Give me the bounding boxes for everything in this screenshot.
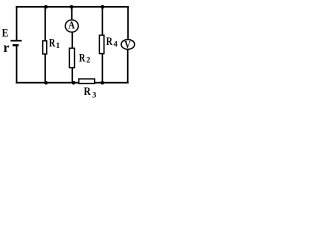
svg-text:R: R <box>84 84 91 98</box>
background <box>0 0 141 102</box>
svg-text:r: r <box>3 40 9 55</box>
node top R4 <box>101 5 105 9</box>
svg-text:R: R <box>49 38 56 50</box>
resistor R3 <box>79 79 95 84</box>
wire right below voltmeter <box>127 49 129 84</box>
svg-text:R: R <box>79 52 86 64</box>
label R3 <box>84 84 96 99</box>
svg-text:2: 2 <box>86 56 90 65</box>
label R1 <box>49 38 60 50</box>
svg-text:3: 3 <box>92 91 96 100</box>
svg-text:E: E <box>2 28 9 40</box>
battery E long plate <box>11 40 22 42</box>
wire branch R4 <box>101 7 103 83</box>
svg-text:V: V <box>124 40 131 51</box>
ammeter A <box>65 20 78 32</box>
resistor R2 <box>69 48 74 67</box>
svg-text:A: A <box>68 21 75 32</box>
resistor R4 <box>99 35 104 53</box>
resistor R1 <box>43 41 47 54</box>
voltmeter V <box>121 40 134 52</box>
node bottom R2 <box>72 81 76 85</box>
node top R1 <box>44 5 48 9</box>
wire left below battery <box>16 45 18 83</box>
wire branch A upper <box>71 7 73 21</box>
label R4 <box>106 36 118 48</box>
wire top <box>16 6 129 8</box>
node top A <box>70 5 74 9</box>
battery E short plate <box>13 44 19 46</box>
wire branch R1 <box>44 7 46 83</box>
wire left above battery <box>16 6 18 41</box>
wire bottom <box>16 82 129 84</box>
svg-text:4: 4 <box>114 39 118 48</box>
node bottom R1 <box>44 81 48 85</box>
svg-text:1: 1 <box>56 41 60 50</box>
wire right above voltmeter <box>127 6 129 40</box>
svg-text:R: R <box>106 36 113 48</box>
node bottom R4 <box>101 81 105 85</box>
label R2 <box>79 52 90 64</box>
wire branch R2 lower <box>71 32 73 82</box>
